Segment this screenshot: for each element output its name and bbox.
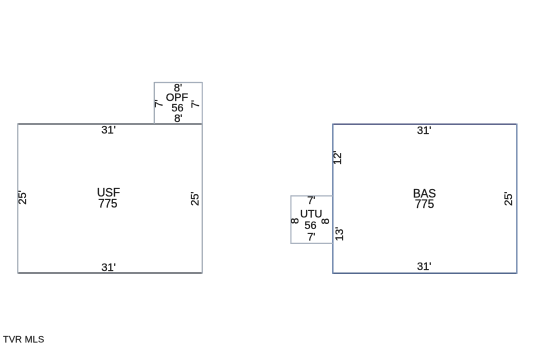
svg-text:7': 7' xyxy=(154,99,166,107)
svg-text:775: 775 xyxy=(98,199,117,211)
wall USF right xyxy=(201,123,203,273)
room USF outline xyxy=(18,123,203,273)
svg-text:775: 775 xyxy=(415,199,434,211)
wall OPF right xyxy=(201,82,203,124)
wall USF top xyxy=(18,123,203,125)
room BAS outline xyxy=(333,124,517,274)
wall OPF left xyxy=(153,82,155,124)
wall BAS right xyxy=(516,124,518,274)
svg-text:8: 8 xyxy=(290,218,302,224)
svg-text:8: 8 xyxy=(320,218,332,224)
svg-text:8': 8' xyxy=(174,113,182,125)
svg-text:25': 25' xyxy=(503,192,515,206)
wall UTU top xyxy=(291,195,333,197)
wall USF bottom xyxy=(18,272,203,274)
room OPF outline xyxy=(154,82,202,124)
svg-text:31': 31' xyxy=(417,125,431,137)
wall BAS left xyxy=(332,124,334,274)
svg-text:31': 31' xyxy=(101,125,115,137)
svg-text:25': 25' xyxy=(190,192,202,206)
wall USF left xyxy=(17,123,19,273)
svg-text:7': 7' xyxy=(307,232,315,244)
wall UTU left xyxy=(290,195,292,244)
wall UTU bottom xyxy=(291,242,333,244)
wall BAS top xyxy=(333,123,517,125)
svg-text:13': 13' xyxy=(334,227,346,241)
svg-text:31': 31' xyxy=(417,261,431,273)
svg-text:7': 7' xyxy=(307,195,315,207)
wall BAS bottom xyxy=(333,272,517,274)
wall OPF top xyxy=(154,82,202,84)
svg-text:56: 56 xyxy=(304,220,316,232)
svg-text:25': 25' xyxy=(17,190,29,204)
svg-text:TVR MLS: TVR MLS xyxy=(3,335,44,345)
svg-text:12': 12' xyxy=(332,151,344,165)
room UTU outline xyxy=(291,195,333,244)
svg-text:31': 31' xyxy=(101,262,115,274)
svg-text:UTU: UTU xyxy=(300,209,322,221)
svg-text:7': 7' xyxy=(190,100,202,108)
